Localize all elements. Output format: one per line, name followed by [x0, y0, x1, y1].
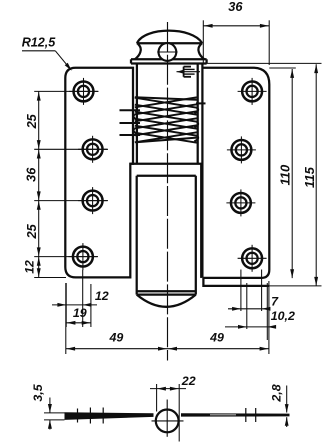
dimension 49 49 — [66, 281, 269, 354]
left hinge plate outline — [65, 68, 133, 278]
svg-text:36: 36 — [228, 0, 243, 14]
dimension 10,2 — [225, 309, 295, 329]
screw hole right 2 — [227, 136, 256, 163]
side view right leaf screws — [246, 408, 256, 422]
screw hole left 1 — [69, 78, 98, 105]
upper knuckle left wall — [136, 63, 138, 163]
screw hole right 4 — [238, 245, 267, 272]
dimension 19 bottom — [66, 306, 91, 325]
spring end stub left — [120, 110, 141, 135]
side view left leaf — [65, 412, 154, 420]
spring end stub right — [196, 102, 206, 104]
svg-text:49: 49 — [209, 331, 224, 345]
screw hole right 1 — [238, 78, 267, 105]
right hinge plate outline — [202, 65, 269, 278]
svg-text:25: 25 — [24, 113, 39, 129]
dimension chain 25/36/25/12 — [34, 91, 108, 277]
dimension 36 top — [203, 0, 269, 65]
cap waist right — [198, 43, 204, 59]
svg-text:115: 115 — [302, 166, 317, 188]
screw hole left 4 — [68, 243, 97, 270]
dimension 3,5 — [31, 383, 64, 429]
dim text 36 left — [24, 167, 39, 182]
dimension 110 — [269, 68, 296, 278]
adjusting screw detail — [177, 67, 201, 77]
pin head circle — [157, 43, 177, 61]
side view knuckle circle — [156, 410, 179, 433]
side view centre lines — [152, 400, 184, 437]
spring coil — [133, 97, 198, 142]
dim text 25 lower — [24, 223, 39, 239]
svg-text:19: 19 — [73, 306, 87, 320]
svg-text:22: 22 — [181, 374, 196, 388]
knuckle step line — [130, 163, 202, 165]
svg-text:12: 12 — [95, 289, 109, 303]
pin shoulder line — [137, 175, 196, 177]
radius label R12,5 — [22, 36, 72, 71]
dimension 115 — [206, 63, 321, 286]
svg-text:25: 25 — [24, 223, 39, 239]
svg-text:10,2: 10,2 — [271, 309, 295, 323]
pin shank walls — [137, 176, 196, 295]
dimension 7 — [228, 270, 279, 341]
dimension 2,8 — [269, 384, 288, 427]
screw hole left 2 — [78, 136, 107, 163]
dimension 22 — [150, 374, 196, 442]
svg-text:7: 7 — [271, 294, 279, 308]
side view left leaf screws — [78, 408, 104, 424]
svg-text:3,5: 3,5 — [31, 383, 45, 401]
svg-text:12: 12 — [23, 260, 37, 274]
right plate inner edge — [200, 164, 202, 278]
svg-text:2,8: 2,8 — [269, 384, 283, 402]
svg-text:36: 36 — [24, 167, 39, 182]
screw hole right 3 — [226, 189, 255, 216]
svg-text:R12,5: R12,5 — [22, 36, 57, 50]
cap waist left — [135, 43, 141, 59]
svg-text:49: 49 — [109, 331, 124, 345]
svg-text:110: 110 — [278, 164, 293, 186]
screw hole left 3 — [78, 187, 107, 214]
side view right leaf — [181, 413, 290, 416]
barrel centre line — [167, 22, 169, 361]
dim text 25 upper — [24, 113, 39, 129]
cap dome — [137, 31, 203, 44]
right plate bottom tab — [203, 278, 269, 286]
upper knuckle right wall — [197, 63, 199, 163]
dimension 12 bottom — [52, 270, 109, 327]
pin bottom cap — [137, 291, 196, 307]
dim text 12 left — [23, 260, 37, 274]
cap rim — [131, 59, 207, 63]
